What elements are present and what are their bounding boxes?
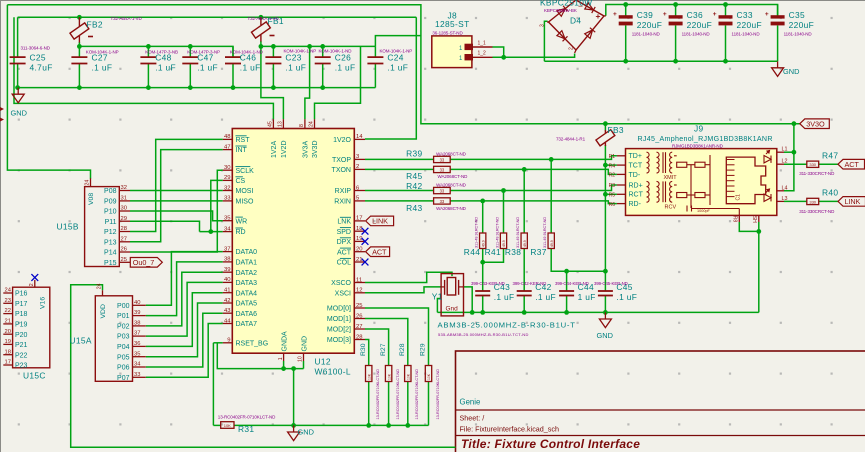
wire P14-SCLK <box>130 170 223 252</box>
svg-text:ACT: ACT <box>337 249 352 256</box>
svg-text:21: 21 <box>5 319 11 325</box>
svg-text:XMIT: XMIT <box>664 175 678 181</box>
svg-text:MOD[2]: MOD[2] <box>327 327 351 334</box>
svg-text:DATA4: DATA4 <box>236 290 258 297</box>
svg-text:P04: P04 <box>117 344 130 351</box>
svg-text:WA2068CT-ND: WA2068CT-ND <box>438 174 469 179</box>
svg-text:R45: R45 <box>406 171 422 181</box>
svg-text:1000pF: 1000pF <box>697 209 711 213</box>
svg-text:RD: RD <box>236 229 246 236</box>
svg-text:3V3D: 3V3D <box>312 140 319 158</box>
svg-text:P23: P23 <box>15 363 28 370</box>
wire P12-RST <box>130 139 223 231</box>
wire R37 tap <box>550 159 552 233</box>
svg-text:1V2A: 1V2A <box>271 141 278 158</box>
svg-text:P19: P19 <box>15 322 28 329</box>
svg-text:Y1: Y1 <box>432 292 443 302</box>
svg-text:311-3064-6-ND: 311-3064-6-ND <box>21 45 51 50</box>
resistor R31 <box>221 422 234 429</box>
U15C top pin with no-connect <box>34 280 36 287</box>
svg-text:49.9: 49.9 <box>502 240 506 247</box>
svg-text:TXOP: TXOP <box>332 157 351 164</box>
svg-text:P06: P06 <box>117 365 130 372</box>
svg-text:ACT: ACT <box>372 247 387 256</box>
wire RXIP row <box>365 190 434 192</box>
svg-text:C1: C1 <box>736 194 742 201</box>
wire GND rail caps <box>18 87 376 89</box>
svg-text:P22: P22 <box>15 352 28 359</box>
svg-text:TXON: TXON <box>332 167 351 174</box>
svg-text:10K: 10K <box>387 373 391 380</box>
ground bridge caps <box>772 61 800 76</box>
svg-text:27: 27 <box>356 324 363 330</box>
wire 1V2A feed <box>14 17 273 119</box>
svg-text:SPD: SPD <box>337 229 351 236</box>
svg-text:1181-1040-ND: 1181-1040-ND <box>784 32 813 37</box>
resistor R38 <box>521 233 527 249</box>
svg-text:DATA7: DATA7 <box>236 321 258 328</box>
svg-text:GND: GND <box>298 428 314 437</box>
svg-text:W6100-L: W6100-L <box>315 367 351 377</box>
ferrite bead FB1 <box>260 17 262 25</box>
wire XSCI <box>365 287 441 293</box>
svg-text:33: 33 <box>440 167 445 172</box>
svg-text:RXIP: RXIP <box>335 188 352 195</box>
svg-text:DATA6: DATA6 <box>236 311 258 318</box>
wire 1V2 rail <box>18 16 417 18</box>
wire R38 tap <box>523 169 525 233</box>
svg-text:C23: C23 <box>285 53 301 63</box>
svg-text:RCT: RCT <box>629 192 644 199</box>
svg-text:20: 20 <box>356 247 363 253</box>
svg-text:Genie: Genie <box>460 398 481 407</box>
svg-text:35: 35 <box>134 351 140 357</box>
title block frame <box>456 351 865 452</box>
svg-text:MOD[1]: MOD[1] <box>327 316 351 323</box>
ferrite bead FB2 <box>78 17 80 26</box>
svg-text:13: 13 <box>278 121 284 127</box>
svg-text:GND: GND <box>301 336 308 352</box>
svg-text:P15: P15 <box>104 260 117 267</box>
svg-text:.1 uF: .1 uF <box>535 292 556 302</box>
svg-text:8: 8 <box>299 124 305 127</box>
ground crystal caps <box>597 312 613 340</box>
svg-text:36-1285-ST-ND: 36-1285-ST-ND <box>432 31 463 36</box>
svg-text:45: 45 <box>268 121 274 127</box>
wire P09-MISO <box>130 200 223 202</box>
svg-text:1_2: 1_2 <box>478 51 487 57</box>
svg-text:39: 39 <box>134 310 140 316</box>
junction dots <box>77 15 82 20</box>
svg-text:399-C43-KER-ND: 399-C43-KER-ND <box>471 281 505 286</box>
svg-text:12: 12 <box>356 288 363 294</box>
svg-text:49.9: 49.9 <box>523 240 527 247</box>
svg-text:1V2O: 1V2O <box>333 137 351 144</box>
svg-text:MOD[3]: MOD[3] <box>327 337 351 344</box>
J9 bottom pins R8 SH <box>738 215 740 222</box>
wire RXIN row <box>365 200 434 202</box>
svg-text:2: 2 <box>29 283 35 286</box>
wire GND drop chip <box>293 369 295 426</box>
svg-text:220uF: 220uF <box>789 20 815 30</box>
svg-text:DATA1: DATA1 <box>236 260 258 267</box>
svg-text:XSCI: XSCI <box>335 290 351 297</box>
wire RSET_BG <box>213 342 222 344</box>
crystal Y1 <box>441 274 463 316</box>
capacitor C36 <box>663 5 683 62</box>
wire 1V2D feed step <box>261 46 284 119</box>
svg-text:37: 37 <box>134 331 140 337</box>
wire R37 to C44/C45 node <box>551 248 605 271</box>
svg-text:L4: L4 <box>782 185 788 191</box>
svg-text:3V3O: 3V3O <box>806 119 825 128</box>
svg-text:J9: J9 <box>694 124 704 134</box>
capacitor C44 <box>559 290 574 292</box>
svg-text:24: 24 <box>309 121 315 127</box>
svg-text:DATA0: DATA0 <box>236 249 258 256</box>
resistor R44 <box>480 233 486 249</box>
U15A pins P00-P07 <box>133 304 146 306</box>
svg-text:49.9: 49.9 <box>550 240 554 247</box>
svg-text:LINK: LINK <box>845 197 861 206</box>
svg-text:33: 33 <box>440 188 445 193</box>
ground chip <box>288 425 314 440</box>
svg-text:P03: P03 <box>117 334 130 341</box>
svg-text:KOM-104K-1-ND: KOM-104K-1-ND <box>230 49 264 54</box>
svg-text:9: 9 <box>227 338 230 344</box>
svg-text:R43: R43 <box>406 203 422 213</box>
svg-text:.1 uF: .1 uF <box>387 63 408 73</box>
svg-text:27: 27 <box>121 236 127 242</box>
wire Y1 left gnd <box>437 299 441 313</box>
resistor R45 <box>434 166 451 172</box>
svg-text:33: 33 <box>440 157 445 162</box>
wire XSCO <box>365 272 452 282</box>
svg-text:311-49.9LRCT-ND: 311-49.9LRCT-ND <box>475 217 479 248</box>
wire bridge plus to cap rail <box>606 5 778 17</box>
svg-text:28: 28 <box>356 334 363 340</box>
IC U15B <box>85 187 120 267</box>
svg-text:P20: P20 <box>15 332 28 339</box>
svg-text:32: 32 <box>224 185 231 191</box>
svg-text:1V2D: 1V2D <box>281 140 288 158</box>
capacitor C27 <box>71 46 87 87</box>
svg-text:311-330CRCT-ND: 311-330CRCT-ND <box>799 209 835 214</box>
capacitor C42 <box>517 290 532 292</box>
hierarchical label Ou0_7 <box>130 258 162 268</box>
svg-text:WA2068CT-ND: WA2068CT-ND <box>436 151 467 156</box>
svg-text:36: 36 <box>134 341 140 347</box>
svg-text:COL: COL <box>337 260 352 267</box>
svg-text:28: 28 <box>121 226 127 232</box>
svg-text:R40: R40 <box>822 188 838 198</box>
wire MOD[2] <box>365 329 389 366</box>
resistor R30 <box>366 366 372 382</box>
svg-text:19: 19 <box>356 236 363 242</box>
wire caps GND rail <box>437 311 758 313</box>
U15B VDD pin <box>90 178 92 186</box>
label LINK right <box>838 197 865 207</box>
svg-text:330: 330 <box>809 199 816 204</box>
IC U15C <box>13 287 50 368</box>
svg-text:Sheet: /: Sheet: / <box>460 414 485 423</box>
svg-text:24: 24 <box>5 288 12 294</box>
svg-text:MISO: MISO <box>236 199 254 206</box>
svg-text:DPX: DPX <box>337 239 352 246</box>
svg-text:DATA3: DATA3 <box>236 280 258 287</box>
connector J8 <box>432 36 472 68</box>
svg-text:P11: P11 <box>105 219 117 226</box>
svg-text:+: + <box>765 11 769 18</box>
svg-text:13-RC0402FR-0710KLCT-ND: 13-RC0402FR-0710KLCT-ND <box>415 369 419 420</box>
svg-text:VDD: VDD <box>100 304 107 318</box>
capacitor C43 <box>475 290 490 292</box>
wire P08-MOSI <box>130 190 223 192</box>
svg-text:CS: CS <box>236 178 246 185</box>
svg-text:29: 29 <box>224 175 231 181</box>
capacitor C23 <box>265 46 281 87</box>
svg-text:P09: P09 <box>104 199 117 206</box>
svg-text:V08: V08 <box>88 193 95 205</box>
wire CS vertical <box>211 180 223 231</box>
svg-text:P02: P02 <box>117 324 130 331</box>
label 3V3O <box>800 119 830 129</box>
resistor R43 <box>434 198 451 204</box>
svg-text:P12: P12 <box>104 229 117 236</box>
bridge rectifier D4 <box>540 0 606 53</box>
svg-text:XSCO: XSCO <box>331 280 351 287</box>
svg-text:44: 44 <box>224 318 231 324</box>
svg-text:P13: P13 <box>104 239 117 246</box>
svg-text:47: 47 <box>224 144 231 150</box>
svg-text:330: 330 <box>809 162 816 167</box>
wire bridge AC left <box>544 21 547 61</box>
svg-text:311-49.9LRCT-ND: 311-49.9LRCT-ND <box>495 217 499 248</box>
svg-text:Ou0_7: Ou0_7 <box>133 258 154 267</box>
svg-text:RJ45_Amphenol_RJMG1BD3B8K1ANR: RJ45_Amphenol_RJMG1BD3B8K1ANR <box>638 135 773 143</box>
svg-text:399-C44-KER-ND: 399-C44-KER-ND <box>555 281 589 286</box>
ferrite bead FB3 <box>604 130 606 133</box>
svg-text:MOSI: MOSI <box>236 188 254 195</box>
svg-text:GNDA: GNDA <box>281 331 288 352</box>
svg-text:KBPC3506W-BK: KBPC3506W-BK <box>544 8 577 13</box>
svg-text:P16: P16 <box>15 291 28 298</box>
svg-text:R2: R2 <box>609 173 616 179</box>
J9 rj45 outline <box>726 157 765 204</box>
svg-text:33: 33 <box>134 372 140 378</box>
svg-text:P01: P01 <box>117 313 130 320</box>
wire 3V3 top rail <box>7 5 799 124</box>
svg-text:R6: R6 <box>609 202 616 208</box>
svg-text:3: 3 <box>540 24 546 27</box>
svg-text:FB3: FB3 <box>608 125 624 135</box>
resistor R27 <box>385 366 391 382</box>
svg-text:37: 37 <box>224 246 231 252</box>
svg-text:30: 30 <box>121 206 127 212</box>
U15B pins P08-P15 <box>119 190 130 192</box>
svg-text:R31: R31 <box>238 424 254 434</box>
svg-text:R47: R47 <box>822 150 838 160</box>
J9 right pins L1 L2 L4 L3 <box>777 151 784 153</box>
svg-text:L1: L1 <box>782 147 788 153</box>
wire R47 to ACT <box>819 163 838 165</box>
svg-text:34: 34 <box>134 362 141 368</box>
svg-text:L2: L2 <box>782 159 788 165</box>
svg-text:ABM3B-25.000MHZ-B-R30-B1U-T: ABM3B-25.000MHZ-B-R30-B1U-T <box>438 321 576 330</box>
wire C44 stub <box>566 271 568 291</box>
capacitor C48 <box>140 46 156 87</box>
wire RCT tap <box>605 193 617 195</box>
wire L4 vertical <box>784 124 794 191</box>
svg-text:32: 32 <box>121 185 127 191</box>
U12 bottom pins GNDA GND <box>283 353 285 361</box>
svg-text:DATA2: DATA2 <box>236 270 258 277</box>
svg-text:1181-1040-ND: 1181-1040-ND <box>632 32 661 37</box>
svg-text:220uF: 220uF <box>687 20 713 30</box>
svg-text:DATA5: DATA5 <box>236 301 258 308</box>
svg-text:1285-ST: 1285-ST <box>435 19 470 29</box>
svg-text:C26: C26 <box>335 53 351 63</box>
svg-text:KBPC2510W: KBPC2510W <box>540 0 593 8</box>
wire Y1 gnd lead <box>464 287 473 313</box>
wire left outer drop to U15B VDD <box>7 5 90 179</box>
svg-text:Title: Fixture Control Interfa: Title: Fixture Control Interface <box>461 437 640 451</box>
page frame edge <box>0 0 2 452</box>
svg-text:10K: 10K <box>427 373 431 380</box>
svg-text:R8: R8 <box>732 216 738 223</box>
capacitor C26 <box>315 46 331 87</box>
resistor R41 <box>500 233 506 249</box>
svg-text:42: 42 <box>224 298 231 304</box>
svg-text:23: 23 <box>5 298 11 304</box>
svg-text:2: 2 <box>569 47 575 50</box>
svg-text:40: 40 <box>134 300 140 306</box>
resistor R42 <box>434 187 451 193</box>
svg-text:P07: P07 <box>117 375 130 382</box>
svg-text:3V3A: 3V3A <box>303 141 310 158</box>
wire MOD[0] <box>365 308 429 366</box>
svg-text:40: 40 <box>224 277 231 283</box>
svg-text:22: 22 <box>5 308 11 314</box>
wire 3V3D feed <box>315 46 361 119</box>
wire MOD[3] <box>365 340 369 366</box>
svg-text:RCV: RCV <box>665 205 677 211</box>
U12 ACT label <box>366 247 390 257</box>
svg-text:WR: WR <box>236 218 248 225</box>
svg-text:RST: RST <box>236 137 251 144</box>
svg-text:10K: 10K <box>367 373 371 380</box>
svg-text:24: 24 <box>97 283 103 289</box>
svg-text:KOM-104K-1-NP: KOM-104K-1-NP <box>380 49 413 54</box>
J9 left pins <box>617 155 626 157</box>
svg-text:KOM-147P-3-NP: KOM-147P-3-NP <box>187 49 220 54</box>
wire L1 to 3V3 <box>784 151 794 153</box>
svg-text:14: 14 <box>356 134 363 140</box>
svg-text:U15C: U15C <box>23 371 46 381</box>
svg-text:Gnd: Gnd <box>446 306 459 313</box>
svg-text:File: FixtureInterface.kicad_s: File: FixtureInterface.kicad_sch <box>460 425 559 434</box>
svg-text:GND: GND <box>597 331 613 340</box>
svg-text:1: 1 <box>278 357 284 360</box>
U12 top power pins <box>272 119 274 128</box>
svg-text:13-RC0402FR-0710KLCT-ND: 13-RC0402FR-0710KLCT-ND <box>436 369 440 420</box>
svg-text:KOM-104K-1-NP: KOM-104K-1-NP <box>284 49 317 54</box>
svg-text:C35: C35 <box>789 10 805 20</box>
svg-text:SH: SH <box>751 216 757 223</box>
svg-text:KOM-104K-1-NP: KOM-104K-1-NP <box>86 49 119 54</box>
svg-text:ACT: ACT <box>845 160 860 169</box>
stray pin marks left edge <box>0 107 4 111</box>
resistor R40 <box>807 198 819 204</box>
svg-text:18: 18 <box>5 349 11 355</box>
svg-text:33: 33 <box>224 196 231 202</box>
svg-text:26: 26 <box>121 247 127 253</box>
capacitor C39 <box>613 5 633 62</box>
svg-text:KOM-147P-3-NB: KOM-147P-3-NB <box>145 49 178 54</box>
svg-text:33: 33 <box>440 199 445 204</box>
svg-text:P14: P14 <box>104 250 117 257</box>
wire RSET to R31 rail <box>212 343 214 426</box>
svg-text:RD-: RD- <box>629 201 642 208</box>
svg-text:LNK: LNK <box>337 219 351 226</box>
svg-text:.1 uF: .1 uF <box>92 63 113 73</box>
svg-text:10: 10 <box>298 356 304 362</box>
wire R40 to LINK <box>819 200 838 202</box>
wire J8 pin1 <box>493 47 504 57</box>
svg-text:U15B: U15B <box>57 222 79 232</box>
wire R44 to C43 <box>482 248 484 291</box>
svg-text:732-4844-1-R1: 732-4844-1-R1 <box>556 136 586 141</box>
svg-text:.1 uF: .1 uF <box>335 63 356 73</box>
svg-text:535-ABM3B-25.000MHZ-B-R30-B1U-: 535-ABM3B-25.000MHZ-B-R30-B1U-TCT-ND <box>438 332 529 337</box>
svg-text:T32-AB4A-1-VD: T32-AB4A-1-VD <box>111 16 143 21</box>
wire FB1 rail C23-C24 <box>260 41 262 46</box>
svg-text:4.7uF: 4.7uF <box>30 63 53 73</box>
svg-text:399-C42-KER-ND: 399-C42-KER-ND <box>513 281 547 286</box>
svg-text:WA2068CT-ND: WA2068CT-ND <box>436 183 467 188</box>
J9 LED bottom <box>764 189 771 201</box>
svg-text:V16: V16 <box>40 297 47 309</box>
wire R44 tap <box>482 201 484 233</box>
svg-text:1 uF: 1 uF <box>578 292 596 302</box>
wire 3V3A feed <box>305 46 310 119</box>
W6100 chip U12 <box>232 129 354 354</box>
svg-text:10K: 10K <box>224 423 231 428</box>
svg-text:19: 19 <box>5 339 11 345</box>
svg-text:RXIN: RXIN <box>334 199 351 206</box>
svg-text:+: + <box>663 11 667 18</box>
svg-text:10K: 10K <box>407 373 411 380</box>
wire L2 to R47 <box>784 163 807 165</box>
svg-text:P10: P10 <box>104 209 117 216</box>
svg-text:RJMG1BD3B8K1ANR-ND: RJMG1BD3B8K1ANR-ND <box>672 144 724 149</box>
svg-text:41: 41 <box>224 288 231 294</box>
svg-text:25: 25 <box>356 303 363 309</box>
svg-text:P17: P17 <box>15 301 28 308</box>
svg-text:29: 29 <box>121 216 127 222</box>
svg-text:.1 uF: .1 uF <box>616 292 637 302</box>
svg-text:C33: C33 <box>737 10 753 20</box>
svg-text:17: 17 <box>356 216 363 222</box>
U15A VDD pin <box>102 290 104 296</box>
svg-text:TCT: TCT <box>629 163 643 170</box>
capacitor C47 <box>182 46 198 87</box>
svg-text:R39: R39 <box>406 149 422 159</box>
svg-text:13-RC0402FR-0710KLCT-ND: 13-RC0402FR-0710KLCT-ND <box>376 369 380 420</box>
resistor R28 <box>405 366 411 382</box>
svg-text:R27: R27 <box>380 343 387 356</box>
svg-text:17: 17 <box>5 360 11 366</box>
